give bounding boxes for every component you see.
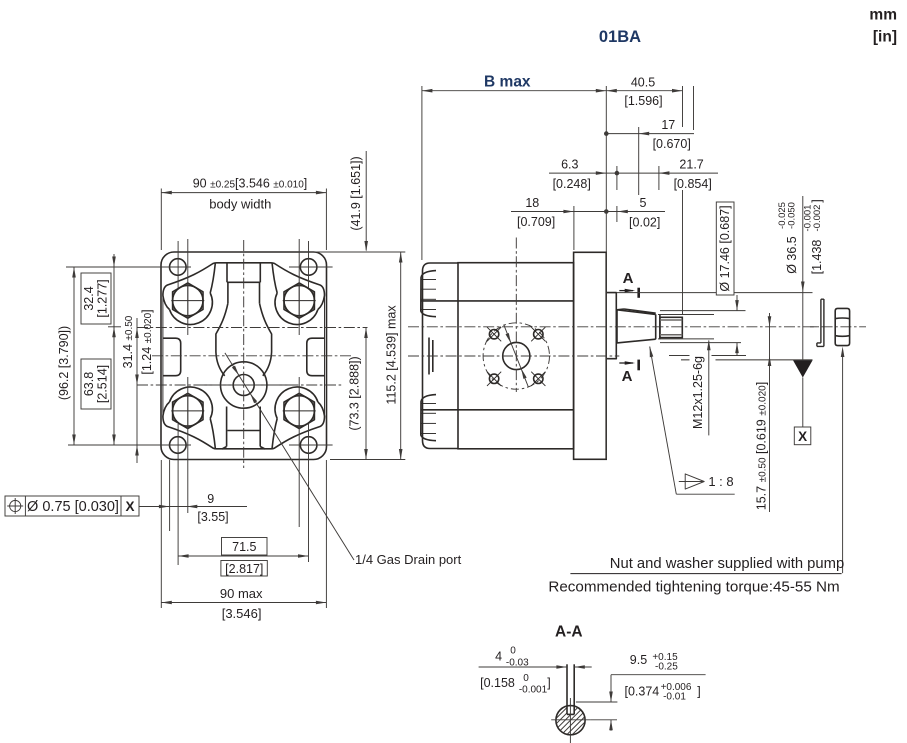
leader from frame and dimension 9: [139, 506, 247, 508]
svg-text:[0.158: [0.158: [480, 676, 515, 690]
side view rear cover: [423, 263, 459, 449]
svg-text:body width: body width: [209, 197, 271, 212]
corner hole center line rows: [66, 266, 191, 268]
front view shaft axis center line: [137, 327, 368, 329]
center bottle shape upper neck: [226, 263, 228, 283]
dimension 4 keyway width: [479, 666, 567, 668]
hex bolt lower-left: [173, 393, 203, 428]
corner hole lower-right: [300, 437, 317, 454]
section center lines: [569, 698, 571, 743]
svg-text:71.5: 71.5: [232, 540, 256, 554]
svg-text:]: ]: [810, 199, 824, 202]
boss around lower-right hex bolt: [275, 387, 318, 418]
svg-text:0: 0: [510, 646, 516, 657]
left side port tab: [163, 338, 181, 376]
dimension diameter 17.46 boxed: [716, 202, 734, 295]
svg-text:X: X: [125, 499, 134, 514]
hex bolt lower-right: [284, 393, 314, 428]
label M12x1.25-6g: [708, 341, 710, 436]
svg-text:[0.374: [0.374: [625, 685, 660, 699]
side view vertical center line of bolt pattern: [515, 238, 517, 393]
dimension 90 body width: [160, 189, 162, 251]
dimension 6.3 and 21.7: [549, 172, 718, 174]
taper 1:8 leader and flag: [650, 347, 677, 495]
svg-text:1/4 Gas Drain port: 1/4 Gas Drain port: [355, 552, 462, 567]
boss around upper-left hex bolt: [170, 293, 213, 324]
drain port inner circle: [233, 375, 254, 396]
svg-text:(96.2 [3.790]): (96.2 [3.790]): [57, 326, 71, 400]
bolt hole bottom-right: [534, 374, 543, 383]
body center line side view: [408, 355, 619, 357]
corner hole upper-left: [170, 259, 187, 276]
boss around lower-left hex bolt: [170, 387, 213, 418]
rear cover top rib stack: [421, 271, 436, 317]
front view drain bore center line: [137, 384, 342, 386]
corner hole lower-left: [170, 437, 187, 454]
svg-text:[1.24 ±0.020]: [1.24 ±0.020]: [140, 309, 154, 374]
svg-text:18: 18: [525, 196, 539, 210]
extension lines right of shaft: [616, 292, 812, 294]
dimension 17: [606, 133, 694, 135]
svg-text:[in]: [in]: [873, 29, 897, 46]
svg-text:Nut and washer supplied with p: Nut and washer supplied with pump: [610, 556, 844, 572]
svg-text:-0.050: -0.050: [787, 202, 798, 229]
svg-text:5: 5: [640, 196, 647, 210]
shaft thread relief groove: [656, 314, 660, 339]
svg-text:Ø 36.5: Ø 36.5: [785, 236, 799, 274]
dimension 63.8 with boxes: [113, 327, 115, 445]
svg-text:[0.670]: [0.670]: [653, 137, 691, 151]
svg-text:M12x1.25-6g: M12x1.25-6g: [691, 356, 705, 429]
svg-text:90 max: 90 max: [220, 586, 263, 601]
svg-text:-0.01: -0.01: [663, 692, 686, 703]
dimension 15.7: [769, 313, 771, 512]
bolt hole bottom-left: [489, 374, 498, 383]
corner hole upper-right: [300, 259, 317, 276]
svg-text:mm: mm: [869, 7, 897, 24]
svg-text:[0.709]: [0.709]: [517, 215, 555, 229]
bottle lower section: [226, 407, 228, 447]
svg-text:(73.3 [2.888]): (73.3 [2.888]): [348, 356, 362, 430]
svg-text:[1.596]: [1.596]: [624, 94, 662, 108]
dimension 115.2 max vertical: [400, 252, 402, 460]
hex bolt upper-left: [173, 283, 203, 318]
svg-text:21.7: 21.7: [679, 158, 703, 172]
svg-text:(41.9 [1.651]): (41.9 [1.651]): [349, 156, 363, 230]
bottle flare to waist: [216, 303, 228, 376]
dimension 96.2 vertical: [73, 267, 75, 445]
svg-text:9.5: 9.5: [630, 653, 647, 667]
side view main body: [458, 263, 574, 449]
dimension 9.5 keyway depth: [611, 674, 706, 676]
svg-text:[1.277]: [1.277]: [96, 279, 110, 317]
dimension B max: [421, 86, 423, 260]
svg-text:115.2 [4.539] max: 115.2 [4.539] max: [385, 305, 399, 405]
svg-text:32.4: 32.4: [82, 286, 96, 310]
bolt circle dash-dot: [483, 323, 549, 389]
datum triangle X: [793, 360, 813, 377]
dimension 41.9 height reference: [365, 151, 367, 251]
dimension 40.5: [606, 90, 682, 92]
position tolerance frame with datum X: [5, 496, 139, 516]
shaft taper cone: [617, 310, 656, 343]
front view body silhouette behind flange: [162, 296, 164, 417]
svg-text:-0.001: -0.001: [519, 685, 548, 696]
svg-text:]: ]: [697, 685, 700, 699]
svg-text:01BA: 01BA: [599, 28, 641, 46]
hex nut side view: [835, 308, 849, 345]
right side port tab: [307, 338, 325, 376]
dimension 90 max: [161, 602, 326, 604]
dimension 73.3 vertical: [365, 328, 367, 460]
rotation arrows on bore: [504, 325, 529, 387]
front view flange outline: [161, 252, 327, 460]
svg-text:A: A: [623, 270, 634, 287]
svg-text:[2.514]: [2.514]: [96, 365, 110, 403]
svg-text:[3.546]: [3.546]: [222, 606, 262, 621]
hex bolt upper-right: [284, 283, 314, 318]
hex bolt center line columns: [187, 239, 189, 335]
svg-text:[0.02]: [0.02]: [629, 216, 660, 230]
dimension 71.5 boxed: [178, 555, 308, 557]
rear cover bottom rib stack: [421, 395, 436, 441]
svg-text:A-A: A-A: [555, 624, 583, 641]
svg-text:0: 0: [523, 673, 529, 684]
front view middle center line: [152, 355, 351, 357]
bolt hole top-right: [534, 330, 543, 339]
gear bolt pattern center circle: [503, 342, 530, 369]
front view vertical center line: [243, 240, 245, 468]
threaded shaft end M12: [660, 317, 682, 337]
svg-text:A: A: [622, 368, 633, 385]
svg-text:15.7 ±0.50 [0.619 ±0.020]: 15.7 ±0.50 [0.619 ±0.020]: [755, 382, 769, 510]
section A-A bottom arrow: [619, 362, 633, 364]
dimension diameter 36.5 with datum: [802, 196, 804, 292]
corner hole center line columns: [177, 241, 179, 288]
svg-text:]: ]: [547, 676, 550, 690]
dimension 18 and 5: [511, 211, 665, 213]
svg-text:4: 4: [495, 650, 502, 664]
svg-text:6.3: 6.3: [561, 158, 578, 172]
boss around upper-right hex bolt: [275, 293, 318, 324]
dimension 31.4: [136, 318, 138, 463]
svg-text:Ø 0.75 [0.030]: Ø 0.75 [0.030]: [27, 499, 119, 515]
svg-text:-0.25: -0.25: [655, 662, 678, 673]
shaft axis center line side view: [408, 326, 866, 328]
svg-text:B max: B max: [484, 74, 531, 91]
pilot boss on flange face: [606, 293, 616, 359]
svg-text:63.8: 63.8: [82, 372, 96, 396]
svg-text:9: 9: [207, 492, 214, 506]
svg-text:17: 17: [661, 118, 675, 132]
svg-text:90 ±0.25[3.546 ±0.010]: 90 ±0.25[3.546 ±0.010]: [193, 177, 308, 191]
section A-A top arrow: [619, 290, 633, 292]
svg-text:-0.03: -0.03: [506, 658, 529, 669]
keyway slot: [566, 664, 568, 714]
front flange plate: [574, 252, 607, 459]
svg-text:[0.854]: [0.854]: [674, 177, 712, 191]
rear cover middle slot: [429, 338, 433, 375]
nut leader line: [842, 350, 844, 573]
svg-text:[1.438: [1.438: [810, 240, 824, 275]
washer: [817, 299, 824, 346]
svg-text:[3.55]: [3.55]: [197, 510, 228, 524]
bolt hole top-left: [489, 330, 498, 339]
svg-text:Recommended tightening torque:: Recommended tightening torque:45-55 Nm: [548, 579, 839, 596]
side body port lines: [421, 300, 574, 302]
svg-text:-0.002: -0.002: [812, 205, 823, 232]
svg-text:X: X: [798, 429, 807, 444]
svg-text:1 : 8: 1 : 8: [708, 474, 733, 489]
washer center tick: [810, 326, 817, 328]
svg-text:[0.248]: [0.248]: [553, 177, 591, 191]
svg-text:31.4 ±0.50: 31.4 ±0.50: [121, 315, 135, 368]
dimension 32.4 with boxes: [113, 254, 115, 340]
svg-text:40.5: 40.5: [631, 76, 655, 90]
leader 1/4 Gas Drain port: [225, 353, 354, 560]
svg-text:[2.817]: [2.817]: [225, 562, 263, 576]
svg-text:Ø 17.46 [0.687]: Ø 17.46 [0.687]: [718, 205, 732, 291]
center bore boss circle: [221, 362, 267, 408]
